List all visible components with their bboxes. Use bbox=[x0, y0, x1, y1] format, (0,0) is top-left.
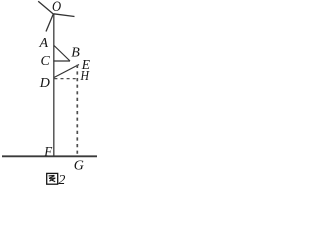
svg-text:C: C bbox=[41, 54, 51, 69]
svg-text:F: F bbox=[43, 144, 53, 160]
svg-text:G: G bbox=[74, 159, 84, 174]
svg-text:B: B bbox=[71, 46, 80, 61]
svg-text:O: O bbox=[52, 0, 61, 14]
svg-text:D: D bbox=[39, 76, 50, 91]
svg-text:A: A bbox=[39, 36, 49, 51]
svg-text:H: H bbox=[80, 67, 90, 83]
svg-text:2: 2 bbox=[58, 173, 65, 187]
